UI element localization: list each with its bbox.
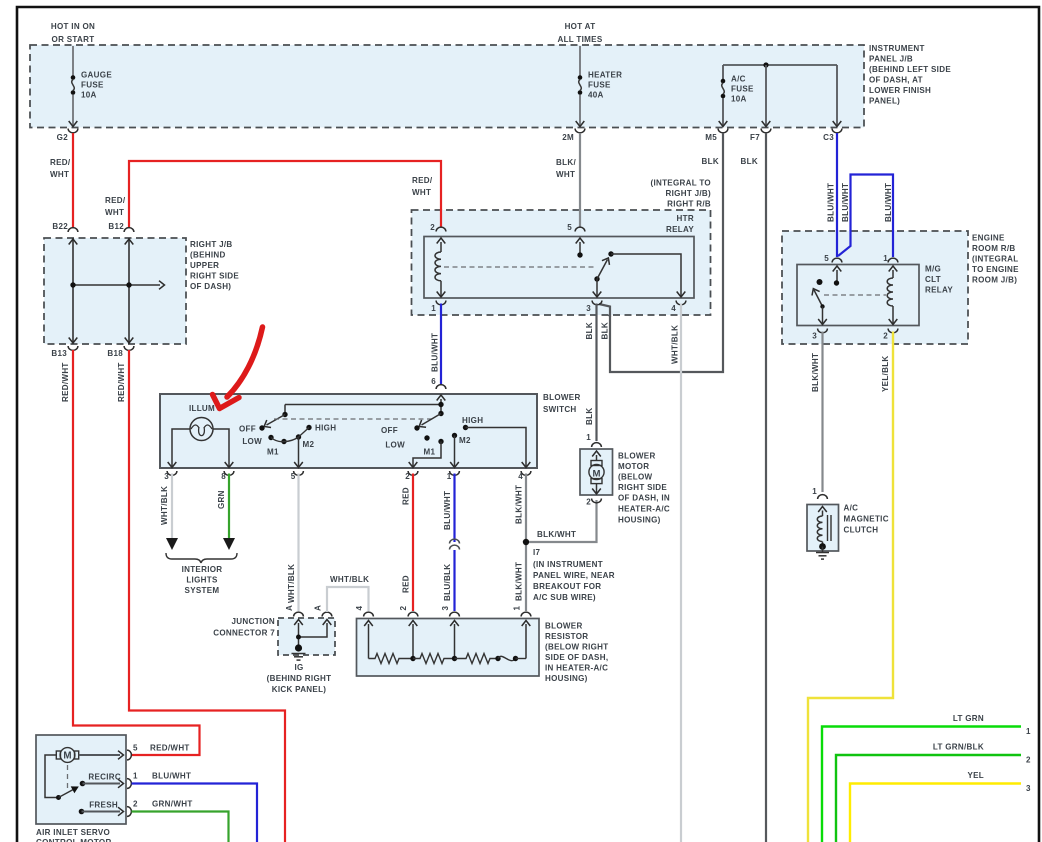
wire bus to C3	[836, 65, 838, 126]
brace interior lights	[166, 553, 237, 563]
wire BLK F7 long run to bottom	[765, 133, 767, 842]
svg-text:BLK/WHT: BLK/WHT	[811, 353, 820, 392]
svg-text:M2: M2	[303, 440, 315, 449]
junction dot on bus	[763, 62, 768, 67]
svg-text:GRN/WHT: GRN/WHT	[152, 799, 193, 808]
left switch pole	[284, 405, 286, 415]
wire pin5 contact to pin 4	[611, 254, 681, 297]
blower motor M symbol	[592, 451, 601, 457]
svg-text:1: 1	[812, 487, 817, 496]
wire contact to pin 3	[596, 279, 598, 297]
svg-text:TO ENGINE: TO ENGINE	[972, 265, 1019, 274]
svg-text:B12: B12	[108, 222, 124, 231]
svg-text:1: 1	[1026, 727, 1031, 736]
svg-text:A: A	[285, 605, 294, 611]
pin 6 feed with junction	[437, 395, 446, 401]
svg-text:JUNCTION: JUNCTION	[231, 617, 275, 626]
svg-text:I7: I7	[533, 548, 541, 557]
junction connector internals	[294, 620, 303, 626]
A/C magnetic clutch connector pin 1	[818, 495, 828, 499]
wire LT GRN	[822, 727, 1021, 842]
svg-text:OF DASH): OF DASH)	[190, 282, 231, 291]
svg-text:3: 3	[441, 606, 450, 611]
blower motor connector pin 1	[592, 443, 602, 447]
svg-text:BLU/WHT: BLU/WHT	[841, 183, 850, 222]
svg-text:OR START: OR START	[52, 35, 95, 44]
svg-text:RELAY: RELAY	[666, 225, 694, 234]
wire RED/WHT B12 branch to HTR relay pin 2	[129, 161, 441, 227]
svg-text:M1: M1	[424, 447, 436, 456]
svg-text:6: 6	[431, 377, 436, 386]
connector pin 3	[167, 471, 177, 475]
fuse A/C FUSE 10A	[721, 79, 726, 99]
wire FRESH to pin 2	[82, 811, 121, 813]
wire BLK/WHT 2M to HTR relay pin 5	[579, 133, 581, 227]
svg-text:PANEL WIRE, NEAR: PANEL WIRE, NEAR	[533, 571, 615, 580]
wire BLK/WHT blower motor pin2 to I7	[529, 500, 597, 542]
svg-text:10A: 10A	[731, 94, 747, 103]
svg-text:1: 1	[133, 771, 138, 780]
wire A/C fuse bus	[723, 64, 837, 66]
connector pin 1	[888, 258, 898, 262]
connector pin M5	[718, 129, 728, 133]
HTR relay outer box	[412, 210, 711, 315]
wire hot-at-all-times feed	[579, 46, 581, 76]
connector pin 2	[436, 227, 446, 231]
connector pin 4	[364, 612, 374, 616]
connector pin 3	[592, 301, 602, 305]
svg-text:RELAY: RELAY	[925, 285, 953, 294]
wire BLU/WHT servo pin1 down	[132, 784, 258, 842]
svg-text:WHT/BLK: WHT/BLK	[287, 564, 296, 603]
M/G CLT relay inner box	[797, 265, 919, 326]
wire M1 to pin 2	[413, 442, 441, 467]
connector pin 2	[408, 612, 418, 616]
svg-text:RED/WHT: RED/WHT	[61, 362, 70, 402]
svg-text:ROOM R/B: ROOM R/B	[972, 244, 1016, 253]
svg-text:RED: RED	[402, 575, 411, 593]
svg-text:1: 1	[447, 472, 452, 481]
svg-text:ALL TIMES: ALL TIMES	[557, 35, 602, 44]
wire BLK/WHT into pin 5 (overlay)	[579, 209, 581, 227]
svg-text:OF DASH, IN: OF DASH, IN	[618, 493, 670, 502]
svg-text:4: 4	[518, 472, 523, 481]
blower switch box	[160, 394, 537, 468]
node I7 junction	[523, 539, 529, 545]
svg-text:WHT/BLK: WHT/BLK	[671, 325, 680, 364]
svg-text:RESISTOR: RESISTOR	[545, 632, 588, 641]
svg-text:LT GRN/BLK: LT GRN/BLK	[933, 742, 984, 751]
svg-text:RECIRC: RECIRC	[88, 772, 121, 781]
contact LOW	[424, 435, 429, 440]
air inlet servo box	[36, 735, 126, 824]
svg-text:BLU/WHT: BLU/WHT	[443, 491, 452, 530]
svg-text:INTERIOR: INTERIOR	[182, 565, 223, 574]
wire heater fuse to 2M	[579, 95, 581, 127]
connector pin C3	[832, 129, 842, 133]
svg-text:5: 5	[133, 743, 138, 752]
svg-text:BLU/WHT: BLU/WHT	[431, 333, 440, 372]
wire WHT/BLK junction A to resistor pin 4	[327, 587, 369, 612]
svg-text:2: 2	[405, 472, 410, 481]
connector pin B13	[68, 346, 78, 350]
svg-text:CLT: CLT	[925, 275, 941, 284]
svg-text:WHT/BLK: WHT/BLK	[160, 486, 169, 525]
svg-text:BREAKOUT FOR: BREAKOUT FOR	[533, 582, 601, 591]
svg-text:RED/WHT: RED/WHT	[150, 743, 190, 752]
svg-text:OF DASH, AT: OF DASH, AT	[869, 75, 923, 84]
svg-text:UPPER: UPPER	[190, 261, 219, 270]
wire gauge fuse to G2	[72, 95, 74, 127]
wire bus to F7	[765, 65, 767, 126]
clutch plates	[827, 515, 829, 541]
wire BLU/BLK pin1 lower to resistor pin 3	[453, 550, 455, 611]
svg-text:A/C SUB WIRE): A/C SUB WIRE)	[533, 593, 596, 602]
svg-text:SIDE OF DASH,: SIDE OF DASH,	[545, 653, 608, 662]
svg-text:ROOM J/B): ROOM J/B)	[972, 275, 1017, 284]
svg-text:PANEL J/B: PANEL J/B	[869, 54, 913, 63]
svg-text:HOT AT: HOT AT	[565, 22, 596, 31]
svg-text:(BELOW: (BELOW	[618, 472, 653, 481]
svg-text:2: 2	[883, 331, 888, 340]
connector pin 8	[224, 471, 234, 475]
contact M2	[452, 433, 457, 438]
svg-text:RED/: RED/	[50, 158, 71, 167]
wire RED/WHT into pin 2 (overlay)	[440, 209, 442, 227]
svg-text:RED: RED	[402, 487, 411, 505]
svg-text:(INTEGRAL: (INTEGRAL	[972, 254, 1019, 263]
junction dot	[70, 282, 75, 287]
connector pin 2	[888, 329, 898, 333]
svg-text:GRN: GRN	[217, 490, 226, 509]
svg-text:4: 4	[355, 606, 364, 611]
svg-text:AIR INLET SERVO: AIR INLET SERVO	[36, 828, 110, 837]
ground IG	[295, 644, 302, 651]
svg-text:RED/: RED/	[412, 176, 433, 185]
M/G relay mech link	[824, 294, 886, 296]
svg-text:RED/WHT: RED/WHT	[117, 362, 126, 402]
fuse GAUGE FUSE 10A	[71, 75, 76, 95]
connector pin 5	[294, 471, 304, 475]
svg-text:IN HEATER-A/C: IN HEATER-A/C	[545, 663, 608, 672]
svg-text:BLOWER: BLOWER	[545, 621, 583, 630]
connector pin B12	[124, 228, 134, 232]
svg-text:M5: M5	[705, 133, 717, 142]
svg-text:1: 1	[431, 304, 436, 313]
svg-text:BLK: BLK	[741, 157, 758, 166]
svg-text:FUSE: FUSE	[81, 80, 104, 89]
annotation red arrow	[227, 327, 263, 397]
servo mech link	[67, 765, 69, 789]
svg-text:LOW: LOW	[242, 437, 262, 446]
svg-text:OFF: OFF	[239, 424, 256, 433]
wire lamp to pin 3	[172, 429, 190, 466]
svg-text:HEATER-A/C: HEATER-A/C	[618, 504, 670, 513]
svg-text:BLK: BLK	[585, 322, 594, 339]
contact OFF	[259, 425, 264, 430]
wire BLU/WHT C3 to M/G CLT relay pin 5	[836, 133, 838, 257]
connector pin 4	[676, 301, 686, 305]
wire M2 to pin 5	[298, 437, 300, 466]
connector pin 1	[450, 471, 460, 475]
blower motor connector pin 2	[592, 499, 602, 503]
svg-text:WHT: WHT	[50, 170, 69, 179]
connector pin 1	[127, 779, 131, 789]
svg-text:B22: B22	[52, 222, 68, 231]
connector pin 3	[818, 329, 828, 333]
connector pin 5	[832, 258, 842, 262]
svg-text:HOUSING): HOUSING)	[545, 674, 588, 683]
wire RED pin2 to resistor pin 2	[412, 474, 414, 612]
wire LT GRN/BLK	[836, 755, 1021, 842]
svg-text:10A: 10A	[81, 90, 97, 99]
HTR relay switch	[576, 238, 585, 244]
mech link dashed	[274, 418, 434, 420]
wire BLK/WHT pin4 to resistor pin 1	[525, 474, 527, 612]
wire RED/WHT B18 down-left run	[129, 350, 285, 842]
svg-text:SWITCH: SWITCH	[543, 405, 577, 414]
contact HIGH	[463, 425, 468, 430]
svg-text:BLU/WHT: BLU/WHT	[884, 183, 893, 222]
svg-text:BLOWER: BLOWER	[543, 393, 581, 402]
wire lamp to pin 8	[213, 429, 229, 466]
svg-text:M1: M1	[267, 447, 279, 456]
svg-text:3: 3	[586, 304, 591, 313]
svg-text:4: 4	[671, 304, 676, 313]
svg-text:1: 1	[883, 254, 888, 263]
svg-text:PANEL): PANEL)	[869, 96, 900, 105]
svg-text:FRESH: FRESH	[89, 800, 118, 809]
wire RECIRC to pin 1	[83, 783, 121, 785]
svg-text:1: 1	[586, 433, 591, 442]
wire YEL	[850, 784, 1021, 842]
svg-text:BLK/WHT: BLK/WHT	[515, 485, 524, 524]
wire GRN pin8 to interior lights	[228, 474, 230, 540]
svg-text:1: 1	[513, 606, 522, 611]
svg-text:WHT: WHT	[556, 170, 575, 179]
connector pin G2	[68, 129, 78, 133]
contact RECIRC	[80, 781, 86, 787]
svg-text:F7: F7	[750, 133, 760, 142]
wire RED/WHT B13 to air inlet servo pin 5	[73, 350, 200, 755]
svg-text:RIGHT SIDE: RIGHT SIDE	[190, 271, 239, 280]
svg-text:(INTEGRAL TO: (INTEGRAL TO	[650, 178, 711, 187]
svg-text:M/G: M/G	[925, 264, 941, 273]
svg-text:BLK: BLK	[601, 322, 610, 339]
svg-text:BLK: BLK	[702, 157, 719, 166]
junction dot	[126, 282, 131, 287]
svg-text:5: 5	[567, 223, 572, 232]
right J/B internal bus B12-B18	[128, 238, 130, 344]
svg-text:(BEHIND LEFT SIDE: (BEHIND LEFT SIDE	[869, 65, 951, 74]
svg-text:BLK: BLK	[585, 408, 594, 425]
wire BLK M5 to HTR relay pin 3	[599, 133, 723, 372]
wire BLU/WHT pin1 upper	[453, 474, 455, 543]
resistor internal risers	[364, 621, 373, 627]
svg-text:2: 2	[399, 606, 408, 611]
connector pin B18	[124, 346, 134, 350]
svg-text:ILLUM: ILLUM	[189, 404, 215, 413]
svg-text:M: M	[593, 469, 601, 480]
inline connector on blue wire	[450, 539, 460, 549]
svg-text:LT GRN: LT GRN	[953, 714, 984, 723]
resistor element 2	[413, 654, 455, 664]
svg-text:3: 3	[812, 331, 817, 340]
HTR relay inner box	[424, 237, 694, 299]
contact FRESH	[79, 809, 85, 815]
svg-text:2: 2	[133, 799, 138, 808]
connector pin 5	[127, 750, 131, 760]
svg-text:MOTOR: MOTOR	[618, 462, 649, 471]
svg-text:SYSTEM: SYSTEM	[185, 586, 220, 595]
right J/B internal branch arrow	[73, 284, 160, 286]
svg-text:RIGHT SIDE: RIGHT SIDE	[618, 483, 667, 492]
svg-text:BLU/BLK: BLU/BLK	[443, 564, 452, 601]
svg-text:WHT: WHT	[412, 188, 431, 197]
svg-text:RIGHT R/B: RIGHT R/B	[667, 199, 711, 208]
svg-text:2: 2	[430, 223, 435, 232]
blower resistor box	[357, 619, 540, 677]
connector pin 2	[408, 471, 418, 475]
connector pin 1	[436, 301, 446, 305]
svg-text:B18: B18	[107, 349, 123, 358]
svg-text:40A: 40A	[588, 90, 604, 99]
svg-text:(BELOW RIGHT: (BELOW RIGHT	[545, 642, 609, 651]
wire BLK HTR pin3 to blower motor pin 1	[595, 304, 597, 442]
wire motor to pin 5	[79, 754, 120, 756]
servo motor M	[56, 751, 60, 759]
svg-text:8: 8	[221, 472, 226, 481]
servo switch blade	[56, 795, 61, 800]
svg-text:HIGH: HIGH	[462, 416, 483, 425]
contacts LOW M1 M2 HIGH	[268, 435, 273, 440]
resistor element 1	[369, 654, 414, 664]
HTR relay mech link	[444, 266, 594, 268]
connector pin 3	[450, 612, 460, 616]
thermal fuse	[498, 656, 516, 660]
connector pin F7	[761, 129, 771, 133]
contact M1	[438, 439, 443, 444]
svg-text:M: M	[63, 751, 71, 762]
wire GRN/WHT servo pin2 down	[132, 812, 229, 842]
svg-text:BLK/WHT: BLK/WHT	[515, 562, 524, 601]
svg-text:C3: C3	[823, 133, 834, 142]
svg-text:A/C: A/C	[731, 74, 746, 83]
connector pin 6	[436, 385, 446, 389]
fuse HEATER FUSE 40A	[578, 75, 583, 95]
svg-text:BLK/: BLK/	[556, 158, 576, 167]
connector pin 5	[575, 227, 585, 231]
svg-text:2M: 2M	[562, 133, 574, 142]
svg-text:M2: M2	[459, 436, 471, 445]
wire WHT/BLK HTR pin4 long run to bottom	[680, 304, 682, 842]
blower motor box	[580, 449, 613, 495]
svg-text:BLU/WHT: BLU/WHT	[827, 183, 836, 222]
wire BLU/WHT HTR pin1 to blower switch pin 6	[440, 304, 442, 386]
right switch pole	[438, 411, 443, 416]
connector pin 1	[521, 612, 531, 616]
svg-text:RIGHT J/B: RIGHT J/B	[190, 240, 233, 249]
svg-text:(BEHIND: (BEHIND	[190, 250, 226, 259]
M/G relay coil	[889, 266, 898, 272]
svg-text:BLK/WHT: BLK/WHT	[537, 530, 576, 539]
svg-text:5: 5	[291, 472, 296, 481]
wire HIGH to pin 4	[466, 428, 527, 467]
svg-text:BLOWER: BLOWER	[618, 451, 656, 460]
connector pin 2	[127, 807, 131, 817]
svg-text:HTR: HTR	[677, 214, 694, 223]
HTR relay coil	[437, 238, 446, 244]
svg-text:3: 3	[164, 472, 169, 481]
wire a/c fuse to M5	[722, 98, 724, 126]
resistor element 3	[455, 654, 499, 664]
wire hot-in-on feed	[72, 46, 74, 76]
svg-text:A: A	[314, 605, 323, 611]
svg-text:LOWER FINISH: LOWER FINISH	[869, 86, 931, 95]
svg-text:HOUSING): HOUSING)	[618, 515, 661, 524]
svg-text:2: 2	[586, 498, 591, 507]
clutch ground	[819, 543, 826, 550]
svg-text:B13: B13	[51, 349, 67, 358]
wire M2 to pin 1	[454, 436, 456, 467]
svg-text:BLU/WHT: BLU/WHT	[152, 771, 191, 780]
svg-text:A/C: A/C	[844, 503, 859, 512]
wire BLK into pin 3 (overlay)	[599, 304, 610, 317]
wire BLU/WHT into pin 5 (overlay)	[836, 230, 838, 257]
connector pin 2M	[575, 129, 585, 133]
svg-text:WHT: WHT	[105, 208, 124, 217]
right J/B internal bus B22-B13	[72, 238, 74, 344]
connector pin 4	[521, 471, 531, 475]
wire BLU/WHT into pin 1 (overlay)	[892, 230, 894, 257]
wire servo motor loop	[45, 755, 57, 798]
connector pin B22	[68, 228, 78, 232]
wire YEL/BLK M/G pin2 down-left run	[808, 332, 893, 842]
svg-text:WHT/BLK: WHT/BLK	[330, 575, 369, 584]
svg-text:FUSE: FUSE	[731, 84, 754, 93]
svg-text:RIGHT J/B): RIGHT J/B)	[666, 189, 711, 198]
svg-text:YEL/BLK: YEL/BLK	[881, 355, 890, 392]
wire WHT/BLK pin3 to interior lights	[171, 474, 173, 540]
svg-text:RED/: RED/	[105, 196, 126, 205]
svg-text:IG: IG	[294, 663, 303, 672]
svg-text:3: 3	[1026, 784, 1031, 793]
svg-text:LOW: LOW	[385, 440, 405, 449]
svg-text:GAUGE: GAUGE	[81, 70, 112, 79]
svg-text:ENGINE: ENGINE	[972, 233, 1005, 242]
engine room R/B outer box	[782, 231, 968, 344]
svg-text:OFF: OFF	[381, 426, 398, 435]
svg-text:HEATER: HEATER	[588, 70, 622, 79]
svg-text:LIGHTS: LIGHTS	[186, 575, 218, 584]
wire WHT/BLK pin5 to junction connector	[297, 474, 299, 612]
M/G relay switch	[833, 266, 842, 272]
svg-text:KICK PANEL): KICK PANEL)	[272, 685, 327, 694]
svg-text:(BEHIND RIGHT: (BEHIND RIGHT	[267, 674, 332, 683]
wire BLK/WHT M/G pin3 to A/C clutch	[821, 332, 823, 493]
svg-text:FUSE: FUSE	[588, 80, 611, 89]
svg-text:INSTRUMENT: INSTRUMENT	[869, 44, 925, 53]
svg-text:YEL: YEL	[967, 771, 984, 780]
instrument panel J/B box	[30, 45, 864, 128]
svg-text:CONNECTOR 7: CONNECTOR 7	[213, 628, 275, 637]
connector pin A left	[294, 612, 304, 616]
svg-text:HIGH: HIGH	[315, 423, 336, 432]
svg-text:5: 5	[824, 254, 829, 263]
contact OFF	[414, 425, 419, 430]
junction connector 7 box	[278, 618, 335, 655]
svg-text:G2: G2	[57, 133, 69, 142]
